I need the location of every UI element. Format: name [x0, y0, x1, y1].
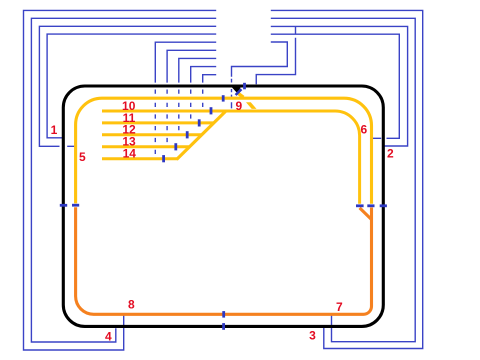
gap tick outer yellow right side — [367, 204, 374, 207]
svg-text:2: 2 — [387, 146, 394, 160]
siding 12 — [102, 133, 202, 136]
wire feed track12: stub y58.4 — [179, 58, 216, 82]
svg-text:3: 3 — [309, 328, 316, 342]
wire feed 7: right stub y18.3 around right side to orange — [271, 18, 415, 341]
dashes column track12 x178.8 — [178, 90, 180, 131]
gap tick black main top — [243, 83, 246, 90]
yard ladder diagonal — [177, 111, 226, 160]
wire feed 9: right stub y42 into crossover column — [232, 42, 288, 77]
yellow outer loop (section 5/6): left side up, top, right side down — [76, 98, 372, 204]
svg-text:5: 5 — [79, 150, 86, 164]
dashes column track10 x202.7 — [202, 90, 204, 108]
wire feed 5: stub y26.3, down left, to yellow left side — [39, 26, 216, 146]
gap tick yellow main top — [222, 95, 225, 101]
gap tick siding 11 — [198, 119, 201, 126]
gap tick yellow/orange left side — [72, 204, 79, 207]
gap tick siding 12 — [186, 131, 189, 138]
wire feed 2: right stub y26.4 to black right side — [271, 26, 408, 146]
wire feed track11: stub y66.6 — [191, 67, 217, 83]
gap tick siding 14 — [162, 155, 165, 162]
svg-text:1: 1 — [51, 123, 58, 137]
gap tick black right side — [380, 204, 387, 207]
orange loop (sections 7/8): left side down, bottom, right side up — [76, 207, 372, 314]
gap tick black bottom — [222, 323, 225, 330]
dashes column feed9 x231.5 — [231, 79, 233, 109]
turnout diagonal main to inner loop — [246, 102, 257, 109]
wire feed black-top: tee from y26 wire at x295.5 down to black main — [256, 26, 295, 84]
black main line loop — [63, 86, 383, 326]
dashes column track11 x190.7 — [190, 90, 192, 119]
svg-text:6: 6 — [361, 123, 368, 137]
crossover black wedge (turnout at section 9) — [231, 87, 241, 94]
crossover insulated gap slash — [236, 89, 242, 95]
gap tick inner yellow right side — [356, 204, 364, 207]
svg-text:7: 7 — [336, 300, 343, 314]
wire feed 4: stub y18.3, down left, to black bottom — [31, 18, 216, 342]
dashes column track14 x155.3 — [154, 90, 156, 155]
crossover yellow segment — [238, 93, 243, 97]
wire feed 8: stub y10.4 left nest outer, down left side, along bottom to orange — [24, 10, 217, 350]
wire feed 3: right stub y10.4 around right side bottom — [271, 10, 423, 348]
gap tick siding 10 — [210, 107, 213, 114]
wire feed track10: stub y74.7 — [203, 75, 217, 83]
svg-text:14: 14 — [123, 147, 137, 161]
svg-text:9: 9 — [235, 99, 242, 113]
siding 14 — [102, 157, 177, 160]
svg-text:8: 8 — [128, 298, 135, 312]
orange merge diagonal from inner loop — [360, 208, 372, 220]
siding 11 — [102, 121, 214, 124]
yellow inner loop line (track 10 through to right side) — [102, 111, 360, 204]
svg-text:4: 4 — [105, 330, 112, 344]
dashes column track13 x167.1 — [166, 90, 168, 143]
siding 13 — [102, 145, 190, 148]
gap tick black left side — [60, 204, 67, 207]
wire feed track13: stub y50.3 — [167, 50, 216, 82]
gap tick siding 13 — [174, 143, 177, 150]
wire feed 1: stub y34.1, down left, to black left side — [47, 34, 216, 138]
wire feed track14: stub y42.2 — [155, 42, 216, 82]
gap tick orange bottom — [222, 311, 225, 318]
wire feed 6: right stub y34.2 to yellow right side — [271, 34, 400, 138]
